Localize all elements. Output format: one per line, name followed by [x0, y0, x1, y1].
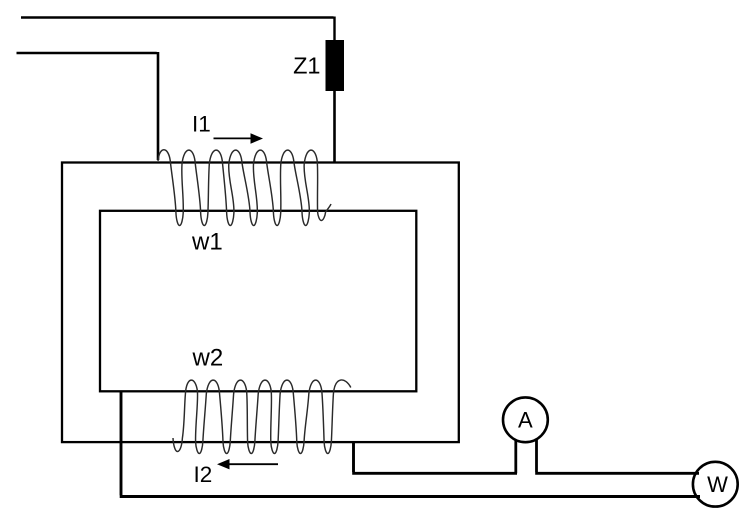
wire ammeter leg right — [535, 438, 699, 473]
wire ammeter leg left — [514, 438, 517, 473]
svg-text:A: A — [518, 408, 533, 433]
svg-text:w1: w1 — [191, 229, 223, 256]
core inner rectangle — [100, 211, 416, 391]
wattmeter W body — [693, 462, 738, 507]
current arrow I1 — [214, 137, 253, 139]
winding w2 — [173, 380, 351, 454]
ammeter A body — [503, 397, 548, 442]
wire top supply line 2 — [17, 52, 159, 160]
core outer rectangle — [62, 163, 459, 443]
svg-text:I1: I1 — [192, 112, 211, 137]
wire w2 left lead to bottom line — [120, 391, 700, 497]
wire top supply line 1 — [21, 17, 335, 41]
svg-text:W: W — [707, 472, 728, 497]
svg-text:Z1: Z1 — [293, 53, 320, 79]
winding w1 — [158, 150, 331, 226]
impedance Z1 — [326, 40, 345, 91]
wire w2 right lead down — [352, 442, 517, 473]
current arrow I2 — [229, 463, 279, 465]
wire Z1 to core top — [333, 91, 336, 163]
svg-text:w2: w2 — [192, 345, 224, 372]
svg-text:I2: I2 — [194, 462, 213, 487]
